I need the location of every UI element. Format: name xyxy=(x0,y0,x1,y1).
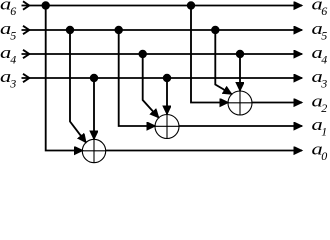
XOR gate a0 xyxy=(82,139,105,162)
wire row a6 xyxy=(22,5,303,7)
svg-text:4: 4 xyxy=(321,52,327,66)
svg-text:6: 6 xyxy=(321,4,327,18)
junction dot a5-3 xyxy=(211,26,219,34)
output label a1 xyxy=(312,115,328,138)
output label a4 xyxy=(312,43,328,66)
svg-text:3: 3 xyxy=(320,76,327,90)
wire a5 to XOR a1 left xyxy=(119,30,156,126)
wire row a3 xyxy=(22,77,303,79)
svg-text:1: 1 xyxy=(321,124,327,138)
svg-text:5: 5 xyxy=(10,28,16,42)
input chevron a6 xyxy=(23,1,29,9)
junction dot a5-2 xyxy=(115,26,123,34)
XOR gate a1 xyxy=(155,115,179,139)
wire row a4 xyxy=(22,53,303,55)
wire row a5 xyxy=(22,29,303,31)
wire a3 to XOR a1 top xyxy=(166,78,168,114)
wire a6 to XOR a0 left xyxy=(46,6,83,151)
wire XOR a0 output xyxy=(106,150,303,152)
input chevron a5 xyxy=(23,26,29,34)
wire XOR a2 output xyxy=(252,102,302,104)
junction dot a5-1 xyxy=(66,26,74,34)
input chevron a3 xyxy=(23,74,29,82)
wire a3 to XOR a0 top xyxy=(93,78,95,139)
svg-text:4: 4 xyxy=(10,52,16,66)
output label a0 xyxy=(312,140,328,163)
junction dot a6-2 xyxy=(187,1,195,9)
wire a6 to XOR a2 left xyxy=(191,6,228,103)
junction dot a3-2 xyxy=(163,74,171,82)
svg-text:2: 2 xyxy=(321,101,327,115)
svg-text:0: 0 xyxy=(321,149,327,163)
junction dot a4-1 xyxy=(139,50,147,58)
svg-text:3: 3 xyxy=(9,76,16,90)
svg-text:5: 5 xyxy=(321,28,327,42)
svg-text:6: 6 xyxy=(10,4,16,18)
input label a5 xyxy=(0,19,16,42)
input label a3 xyxy=(0,67,16,90)
junction dot a4-2 xyxy=(236,50,244,58)
output label a2 xyxy=(312,92,328,115)
wire XOR a1 output xyxy=(179,125,302,127)
output label a3 xyxy=(312,67,328,90)
input chevron a4 xyxy=(23,50,29,58)
XOR gate a2 xyxy=(228,91,252,115)
wire a4 to XOR a1 diagonal xyxy=(143,54,159,118)
wire a5 to XOR a2 diagonal xyxy=(215,30,231,94)
input label a6 xyxy=(0,0,16,18)
wire a4 to XOR a2 top xyxy=(239,54,241,91)
output label a5 xyxy=(312,19,328,42)
wire a5 to XOR a0 diagonal xyxy=(70,30,86,142)
output label a6 xyxy=(312,0,328,18)
junction dot a6-1 xyxy=(42,1,50,9)
junction dot a3-1 xyxy=(90,74,98,82)
input label a4 xyxy=(0,43,16,66)
